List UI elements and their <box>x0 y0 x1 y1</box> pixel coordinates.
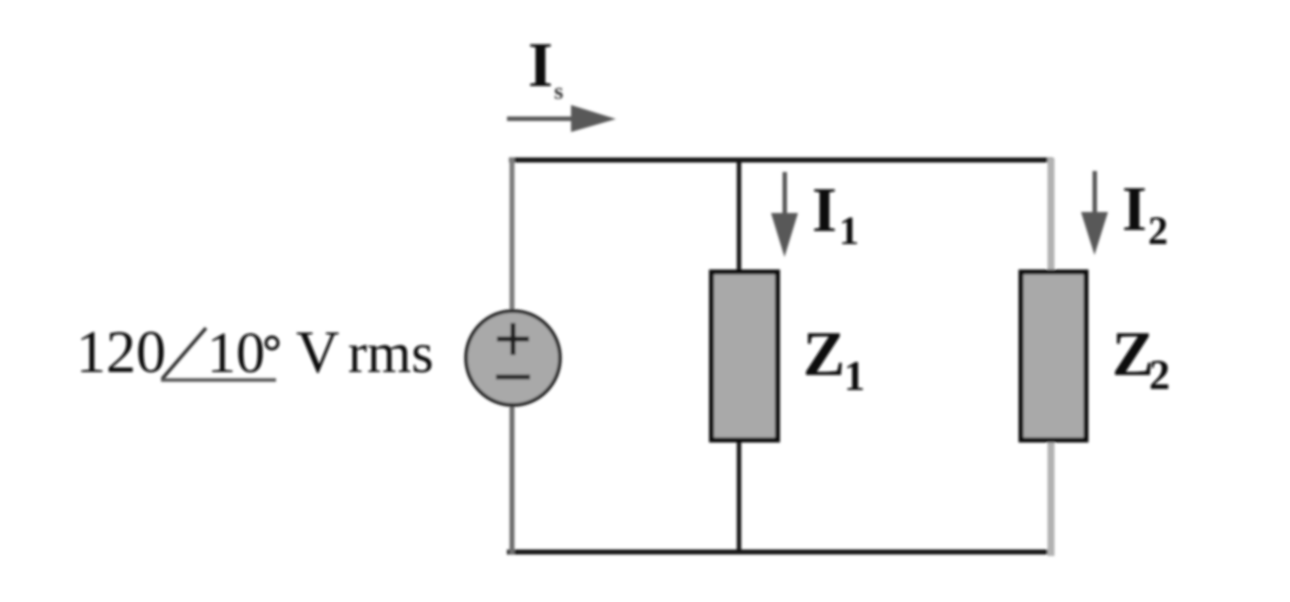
svg-text:Z: Z <box>803 319 845 389</box>
current arrow Is (top, pointing right) <box>507 105 616 132</box>
angle symbol diagonal stroke <box>162 328 206 379</box>
impedance Z1 (rectangle) <box>712 272 778 440</box>
wire: left vertical below source <box>510 404 515 554</box>
svg-text:rms: rms <box>348 322 434 385</box>
wire: Z1 branch vertical above Z1 <box>737 158 742 274</box>
wire: Z1 branch vertical below Z1 <box>737 438 742 554</box>
svg-text:10: 10 <box>207 320 265 385</box>
svg-text:120: 120 <box>76 319 166 385</box>
svg-text:I: I <box>812 174 837 245</box>
wire: bottom horizontal (return node) <box>507 550 1054 555</box>
voltage source V1 (120&#8736;10&#176; V rms) <box>466 311 560 405</box>
svg-text:I: I <box>1122 173 1147 244</box>
svg-text:2: 2 <box>1149 353 1170 399</box>
svg-text:1: 1 <box>839 208 859 253</box>
wire: right vertical through Z2 branch <box>1048 158 1055 556</box>
wire: top horizontal (node between source and Z1/Z2 tops) <box>509 158 1053 163</box>
angle symbol underline <box>161 378 276 382</box>
current arrow I2 (pointing down into Z2) <box>1081 171 1108 255</box>
wire: left vertical above source <box>510 158 515 313</box>
svg-text:I: I <box>528 29 553 100</box>
current arrow I1 (pointing down into Z1) <box>771 172 798 257</box>
svg-text:1: 1 <box>844 354 865 400</box>
source value label 120∠10° V rms <box>76 319 434 385</box>
minus sign of source <box>496 375 530 380</box>
svg-text:V: V <box>296 319 339 385</box>
plus sign of source <box>497 323 529 355</box>
svg-text:s: s <box>554 79 563 105</box>
svg-text:Z: Z <box>1112 319 1154 389</box>
svg-text:2: 2 <box>1148 208 1168 253</box>
impedance Z2 (rectangle) <box>1021 272 1086 440</box>
degree symbol of 10° <box>266 337 278 349</box>
